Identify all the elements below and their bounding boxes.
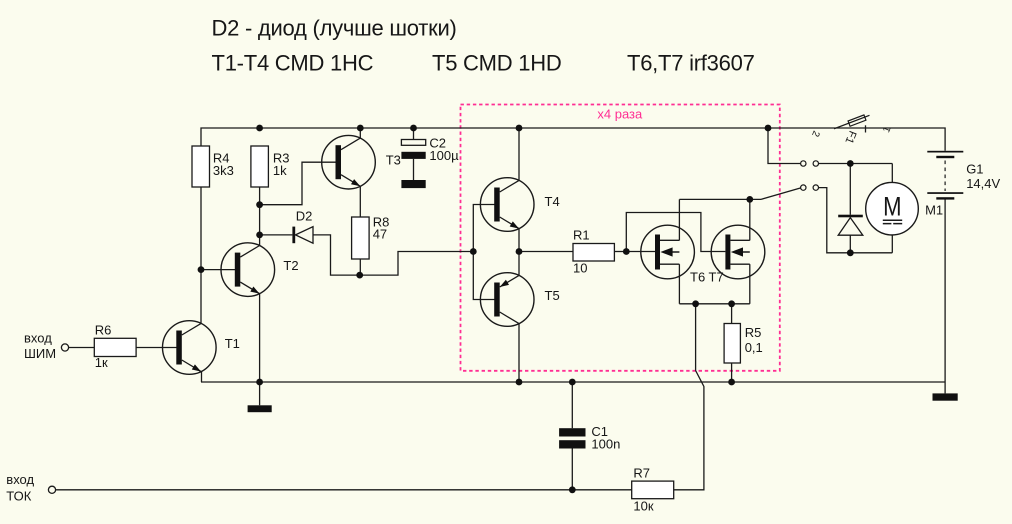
svg-text:D2: D2: [296, 208, 313, 223]
wire bottom rail: [201, 381, 945, 383]
wire T6 drain up: [678, 199, 680, 240]
svg-text:ТОК: ТОК: [6, 488, 31, 503]
wire motor top stem: [891, 164, 893, 183]
svg-text:x4 раза: x4 раза: [597, 107, 643, 122]
svg-text:T5 CMD 1HD: T5 CMD 1HD: [432, 51, 562, 76]
svg-text:M: M: [883, 192, 901, 222]
svg-text:100n: 100n: [591, 437, 620, 452]
wire node R3/T3-base to T3 base: [260, 162, 336, 205]
node R3/D2: [256, 232, 263, 239]
node source bus/R7 tap: [692, 300, 699, 307]
wire switch lever: [761, 188, 801, 200]
wire T4 collector from rail: [518, 128, 520, 181]
svg-text:R6: R6: [95, 322, 112, 337]
switch contact pair upper: [801, 161, 819, 166]
node C1/TOK line: [569, 486, 576, 493]
node T4 T5 bases: [470, 248, 477, 255]
transistor T6: [641, 225, 695, 279]
x4 frame (pink dashed box): [461, 105, 780, 371]
wire D2 anode to R8 bottom node: [313, 235, 360, 275]
resistor R3: [251, 146, 290, 187]
svg-text:T5: T5: [545, 288, 560, 303]
ground mid: [248, 382, 272, 412]
node rail/T2 emitter ground: [256, 379, 263, 386]
diode D2: [292, 208, 313, 243]
wire node to R1: [519, 251, 573, 253]
input terminal PWM: [24, 331, 69, 362]
wire rail to switch contact 1: [768, 128, 801, 164]
capacitor C2: [401, 135, 459, 163]
transistor T5: [480, 273, 559, 327]
wire T4 emitter / T5 emitter node: [518, 228, 520, 275]
fuse F1: [809, 115, 894, 145]
switch contact pair lower: [801, 185, 819, 190]
svg-text:ШИМ: ШИМ: [24, 346, 56, 361]
svg-text:10: 10: [573, 260, 587, 275]
transistor T3: [322, 135, 401, 189]
wire freewheel diode top stem: [849, 164, 851, 215]
wire freewheel diode bottom stem: [849, 235, 851, 253]
wire R8 node to T4/T5 base node: [360, 252, 474, 276]
svg-text:47: 47: [373, 227, 387, 242]
svg-text:0,1: 0,1: [745, 340, 763, 355]
resistor R8: [352, 214, 390, 259]
svg-text:100µ: 100µ: [429, 148, 459, 163]
wire drain bus: [679, 198, 761, 200]
wire top rail left of fuse: [201, 128, 945, 151]
wire battery bottom to rail: [944, 200, 946, 383]
node rail/C2: [410, 125, 417, 132]
wire R1 to gate node: [614, 251, 626, 253]
freewheel diode: [838, 215, 863, 236]
wire T5 collector down: [518, 323, 520, 382]
input terminal TOK: [6, 472, 55, 503]
node T1 collector/T2 base: [198, 266, 205, 273]
transistor T4: [480, 178, 559, 232]
node drain bus/T7: [746, 196, 753, 203]
svg-text:3k3: 3k3: [213, 163, 234, 178]
node rail/T3: [357, 125, 364, 132]
wire T4/T5 base link: [473, 205, 494, 300]
wire source bus to R7 (jog over rail): [674, 304, 704, 490]
svg-text:T4: T4: [545, 194, 560, 209]
node diode top: [847, 160, 854, 167]
node rail/switch: [765, 125, 772, 132]
wire R4 bottom to T1 collector: [200, 187, 202, 324]
svg-text:R5: R5: [745, 325, 762, 340]
wire T1 emitter down: [201, 372, 203, 383]
node rail/C1: [569, 379, 576, 386]
transistor T2: [221, 243, 299, 297]
node rail/R5: [728, 379, 735, 386]
svg-text:M1: M1: [925, 203, 943, 218]
svg-text:10к: 10к: [633, 499, 653, 514]
resistor R4: [192, 146, 234, 187]
wire source bus: [679, 303, 749, 305]
wire gate node to T6 gate: [626, 251, 655, 253]
resistor R6: [94, 322, 136, 370]
node source bus/R5: [728, 300, 735, 307]
node rail/T4: [516, 125, 523, 132]
svg-text:T1-T4 CMD 1HC: T1-T4 CMD 1HC: [212, 51, 374, 76]
svg-text:G1: G1: [966, 162, 983, 177]
node rail/T5: [516, 379, 523, 386]
resistor R1: [573, 228, 614, 276]
node T4/T5 emitters: [516, 248, 523, 255]
node R3/T3 base: [256, 201, 263, 208]
svg-text:T3: T3: [386, 153, 401, 168]
wire T7 drain up: [749, 199, 751, 240]
resistor R7: [632, 465, 674, 513]
node rail/R3: [256, 125, 263, 132]
wire T6 source down: [678, 264, 680, 304]
resistor R5: [724, 324, 763, 364]
battery G1: [927, 151, 1000, 200]
wire input to R6: [69, 347, 95, 349]
svg-text:R1: R1: [573, 228, 590, 243]
svg-text:R7: R7: [633, 465, 650, 480]
wire TOK input line: [56, 489, 632, 491]
wire T3 collector: [359, 128, 361, 139]
capacitor C1: [559, 424, 620, 452]
node R1/gates: [623, 248, 630, 255]
wire T2 emitter down: [259, 294, 261, 382]
node R8/D2: [356, 272, 363, 279]
wire C1 top stem: [571, 382, 573, 428]
node diode bottom: [847, 249, 854, 256]
wire C1 bottom stem: [571, 449, 573, 490]
wire R6 to T1 base: [136, 347, 176, 349]
ground right: [933, 382, 958, 401]
wire R8 bottom: [359, 259, 361, 275]
wire R5 top: [731, 304, 733, 324]
svg-text:14,4V: 14,4V: [966, 176, 1000, 191]
transistor T1: [163, 321, 240, 375]
wire C2 top stem: [413, 128, 415, 140]
ground at C2: [401, 180, 425, 188]
wire T3 emitter to R8: [359, 186, 361, 217]
wire gate node to T7 gate: [626, 213, 725, 252]
svg-text:T6,T7 irf3607: T6,T7 irf3607: [627, 51, 755, 76]
wire C2 bottom stem to ground: [413, 159, 415, 180]
svg-text:вход: вход: [6, 472, 34, 487]
wire T7 source down: [749, 264, 751, 304]
svg-text:1k: 1k: [273, 163, 287, 178]
transistor T7: [711, 225, 765, 279]
wire motor bottom stem: [891, 235, 893, 253]
svg-text:T2: T2: [283, 258, 298, 273]
wire R5 bottom: [731, 363, 733, 382]
svg-text:вход: вход: [24, 331, 52, 346]
wire contact 2 to motor bottom: [819, 188, 893, 253]
svg-text:D2 - диод (лучше шотки): D2 - диод (лучше шотки): [212, 16, 457, 41]
svg-text:T1: T1: [225, 336, 240, 351]
wire T1 collector node to T2 base: [201, 269, 235, 271]
wire R3 bottom: [259, 187, 261, 246]
wire node to D2 cathode: [260, 234, 293, 236]
wire contact 1 to motor top: [819, 163, 893, 165]
motor M1: [866, 182, 943, 235]
svg-text:1к: 1к: [95, 355, 108, 370]
